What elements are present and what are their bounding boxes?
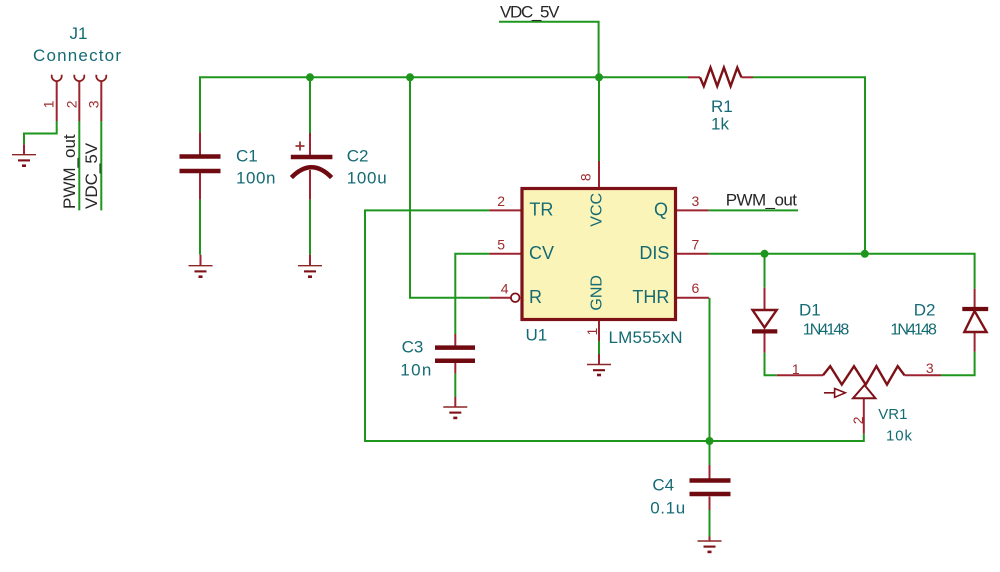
svg-text:VR1: VR1: [878, 406, 907, 423]
svg-text:C2: C2: [347, 147, 369, 166]
svg-text:3: 3: [926, 360, 934, 376]
svg-text:3: 3: [692, 193, 700, 209]
svg-text:C3: C3: [402, 338, 424, 357]
svg-text:U1: U1: [526, 326, 548, 345]
svg-text:5: 5: [497, 236, 505, 252]
svg-text:R: R: [529, 287, 542, 307]
svg-text:6: 6: [692, 280, 700, 296]
svg-text:2: 2: [63, 100, 79, 108]
svg-text:4: 4: [501, 280, 509, 296]
svg-text:VDC_5V: VDC_5V: [82, 142, 101, 209]
svg-text:8: 8: [578, 173, 594, 181]
svg-text:1: 1: [584, 327, 600, 335]
svg-text:10n: 10n: [400, 360, 431, 379]
svg-text:1N4148: 1N4148: [890, 322, 937, 339]
svg-text:VCC: VCC: [589, 193, 606, 227]
svg-text:DIS: DIS: [639, 243, 669, 263]
svg-text:D1: D1: [799, 300, 821, 319]
svg-text:THR: THR: [632, 287, 669, 307]
svg-text:3: 3: [85, 100, 101, 108]
svg-text:2: 2: [497, 193, 505, 209]
svg-text:0.1u: 0.1u: [650, 499, 685, 518]
svg-text:C1: C1: [236, 147, 258, 166]
svg-text:Connector: Connector: [33, 46, 121, 65]
svg-text:1: 1: [792, 361, 800, 377]
svg-text:CV: CV: [529, 243, 554, 263]
svg-text:TR: TR: [529, 199, 553, 219]
svg-text:7: 7: [692, 236, 700, 252]
svg-text:PWM_out: PWM_out: [726, 191, 798, 210]
svg-text:1N4148: 1N4148: [803, 322, 850, 339]
svg-text:100n: 100n: [236, 168, 276, 187]
svg-text:10k: 10k: [886, 428, 913, 445]
svg-text:1k: 1k: [711, 114, 729, 133]
svg-text:LM555xN: LM555xN: [609, 328, 683, 347]
svg-text:Q: Q: [654, 199, 668, 219]
svg-text:R1: R1: [711, 97, 733, 116]
svg-text:C4: C4: [652, 476, 674, 495]
svg-text:100u: 100u: [347, 168, 387, 187]
svg-text:D2: D2: [914, 300, 936, 319]
svg-text:VDC_5V: VDC_5V: [500, 2, 560, 21]
svg-text:J1: J1: [70, 24, 88, 43]
svg-text:2: 2: [850, 416, 866, 424]
svg-text:PWM_out: PWM_out: [60, 134, 79, 209]
svg-text:1: 1: [41, 100, 57, 108]
svg-text:GND: GND: [589, 275, 606, 311]
